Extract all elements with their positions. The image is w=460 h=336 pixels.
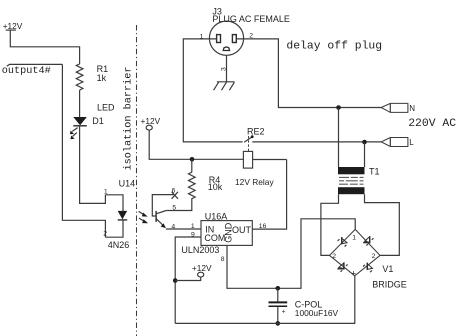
- junction +12V/COM: [173, 278, 178, 283]
- svg-text:5: 5: [172, 205, 176, 212]
- diode D-BL: [337, 262, 347, 271]
- resistor R1: [76, 64, 83, 90]
- junction N/transformer: [336, 105, 341, 110]
- svg-text:U14: U14: [119, 179, 136, 189]
- wire coil to ULN OUT: [253, 159, 287, 161]
- wire N to transformer primary: [338, 108, 340, 168]
- wire R1 to D1: [79, 90, 81, 117]
- resistor R4: [189, 172, 196, 202]
- svg-text:4: 4: [171, 224, 175, 231]
- svg-text:COM: COM: [204, 233, 225, 243]
- relay RE2 switch: [244, 135, 253, 151]
- wire J3 pin2 to N: [236, 39, 381, 108]
- svg-text:V1: V1: [382, 264, 393, 274]
- pin 5 wire: collector to R4: [166, 202, 192, 210]
- wire +12V rail to relay coil: [149, 130, 243, 159]
- svg-text:8: 8: [221, 256, 225, 263]
- svg-text:ULN2003: ULN2003: [181, 245, 219, 255]
- svg-text:1: 1: [191, 223, 195, 230]
- transformer T1: [338, 167, 365, 194]
- svg-text:BRIDGE: BRIDGE: [372, 280, 407, 290]
- pin 16 wire OUT to relay: [252, 160, 286, 230]
- U14 light arrows: [139, 211, 149, 223]
- svg-text:2: 2: [372, 253, 376, 260]
- wire secondary right to bridge: [365, 194, 400, 255]
- svg-text:isolation barrier: isolation barrier: [123, 67, 135, 171]
- supply +12V top-left: [3, 21, 23, 31]
- wire J3 pin1 to relay switch: [183, 39, 242, 142]
- net label output4#: [2, 64, 63, 76]
- svg-text:GND: GND: [224, 222, 234, 243]
- wire secondary left to bridge: [321, 194, 339, 255]
- pin 6 wire and no-connect: [152, 192, 178, 216]
- junction R4/+12V: [190, 157, 195, 162]
- supply +12V at ULN: [192, 263, 212, 277]
- wire bottom rail: [175, 322, 355, 324]
- svg-text:+12V: +12V: [192, 263, 212, 273]
- optocoupler U14 LED side: [105, 195, 127, 237]
- svg-text:L: L: [409, 138, 414, 147]
- svg-text:6: 6: [172, 188, 176, 195]
- bridge V1 diamond: [330, 229, 381, 275]
- svg-text:9: 9: [191, 231, 195, 238]
- isolation barrier dashed line: [136, 25, 138, 336]
- svg-text:2: 2: [332, 253, 336, 260]
- connector N: [381, 103, 408, 112]
- svg-text:220V AC: 220V AC: [408, 118, 456, 130]
- diode D-TL: [338, 237, 347, 247]
- svg-text:12V Relay: 12V Relay: [235, 177, 274, 187]
- connector J3 plug: [209, 21, 243, 55]
- svg-text:delay off plug: delay off plug: [286, 40, 382, 52]
- pin 8 wire GND down: [227, 219, 355, 288]
- svg-text:PLUG AC FEMALE: PLUG AC FEMALE: [212, 14, 290, 24]
- IC U16A box: [201, 221, 252, 246]
- svg-text:4N26: 4N26: [108, 240, 130, 250]
- svg-text:+12V: +12V: [141, 116, 161, 126]
- svg-text:D1: D1: [92, 116, 104, 126]
- wire junction to R4: [191, 159, 193, 172]
- svg-text:2: 2: [103, 230, 107, 237]
- svg-text:1: 1: [352, 234, 356, 241]
- junction cap bottom: [276, 321, 281, 326]
- svg-text:output4#: output4#: [2, 66, 51, 77]
- junction cap top: [276, 286, 281, 291]
- U14 phototransistor: [156, 211, 166, 229]
- wire D1 to opto pin1: [80, 126, 106, 204]
- svg-text:1: 1: [104, 188, 108, 195]
- LED D1: [70, 117, 87, 139]
- wire J3 pin3 to earth: [226, 55, 228, 82]
- diode D-TR: [363, 236, 373, 245]
- relay RE2 coil: [243, 151, 252, 168]
- junction L/transformer: [362, 140, 367, 145]
- earth ground: [214, 82, 235, 90]
- svg-text:OUT: OUT: [232, 225, 252, 235]
- svg-text:LED: LED: [97, 102, 115, 112]
- pin 9 wire COM: [175, 237, 201, 323]
- wire output4# to opto pin2: [62, 64, 105, 237]
- svg-text:+: +: [282, 309, 286, 316]
- supply +12V mid: [141, 116, 161, 130]
- wire bridge plus to bottom rail: [354, 276, 356, 324]
- capacitor C-POL: [269, 288, 288, 323]
- svg-text:1k: 1k: [97, 73, 107, 83]
- svg-text:N: N: [409, 104, 415, 113]
- wire switch to L: [252, 141, 381, 143]
- wire L to transformer primary: [364, 142, 366, 167]
- pin 4 wire: emitter to ULN IN: [166, 228, 201, 230]
- svg-text:U16A: U16A: [205, 212, 228, 222]
- connector L: [381, 138, 408, 147]
- svg-text:16: 16: [259, 223, 267, 230]
- svg-text:T1: T1: [369, 167, 380, 177]
- svg-text:10k: 10k: [208, 182, 223, 192]
- svg-text:RE2: RE2: [247, 127, 265, 137]
- wire +12V to junction: [175, 277, 201, 281]
- wire +12V to R1: [10, 30, 79, 64]
- svg-text:1000uF16V: 1000uF16V: [295, 308, 339, 318]
- diode D-BR: [363, 263, 372, 273]
